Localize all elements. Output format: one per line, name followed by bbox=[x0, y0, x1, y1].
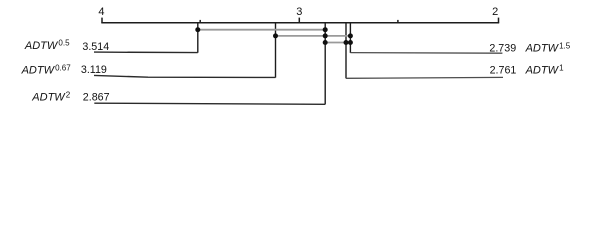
svg-text:3.514: 3.514 bbox=[82, 41, 109, 53]
svg-text:2.739: 2.739 bbox=[489, 42, 516, 54]
svg-text:2.867: 2.867 bbox=[83, 92, 110, 104]
svg-text:4: 4 bbox=[98, 6, 104, 18]
svg-text:3.119: 3.119 bbox=[81, 64, 107, 76]
svg-text:3: 3 bbox=[296, 6, 302, 18]
svg-text:2: 2 bbox=[492, 6, 498, 18]
svg-text:2.761: 2.761 bbox=[490, 65, 517, 77]
